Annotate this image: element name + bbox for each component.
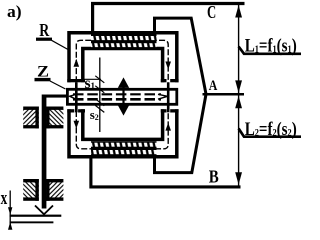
x reference line 1: [10, 215, 62, 217]
dim arrow A-top (down): [235, 80, 242, 93]
rod: [42, 95, 47, 209]
svg-text:C: C: [207, 2, 216, 22]
rod arm: [42, 95, 68, 98]
dim arrow top (up): [235, 5, 242, 18]
underline of L2 with leader to dim line: [239, 129, 301, 137]
rod end arrow: [35, 206, 53, 215]
upper winding hatched band: [91, 35, 157, 48]
s dimension vertical line: [99, 58, 101, 133]
leader from R to core: [52, 40, 69, 49]
s tick at gap1 bottom: [95, 86, 104, 93]
x dimension vertical line: [9, 191, 11, 230]
svg-text:R: R: [39, 20, 50, 40]
lower core right limb top edge (with flux gap): [161, 109, 167, 112]
support block upper-right: [46, 110, 63, 126]
armature taper right: [158, 94, 168, 99]
lower flux arrow right (up): [165, 123, 171, 131]
underline of R: [36, 38, 52, 41]
support block lower-left: [23, 182, 39, 198]
armature dashed line upper: [73, 93, 161, 95]
lower flux arrow left (down): [74, 121, 80, 129]
wire from node A to lower coil right end: [155, 95, 206, 173]
leader from Z to armature: [50, 81, 66, 89]
upper flux arrow right (down): [165, 62, 171, 70]
lower core outline (U): [69, 109, 177, 157]
dim arrow A-bottom (up): [235, 96, 242, 109]
upper flux path: [76, 40, 168, 82]
lower winding hatched band: [91, 141, 157, 155]
armature outline: [67, 89, 176, 104]
dim arrow bottom (down): [235, 172, 242, 185]
support block lower-right: [46, 182, 63, 198]
x dim arrow upper (down): [8, 207, 12, 215]
x reference line 2: [10, 221, 54, 223]
svg-text:a): a): [7, 2, 22, 21]
flux gap stub right: [167, 82, 170, 112]
underline of Z: [35, 78, 51, 81]
upper core inner window edge: [83, 49, 163, 83]
svg-text:B: B: [209, 167, 219, 187]
svg-text:A: A: [209, 78, 218, 94]
lower core inner window edge: [83, 109, 163, 139]
s tick at gap2 top: [95, 99, 104, 106]
upper core right limb bottom edge (with flux gap): [161, 79, 167, 82]
x dim arrow lower (up): [8, 222, 12, 230]
upper flux arrow left (up): [74, 59, 80, 67]
s1 extension line: [84, 78, 101, 80]
armature taper left: [70, 94, 76, 99]
s tick at gap1 top: [95, 76, 104, 83]
upper core outline (inverted U): [69, 33, 177, 83]
lower core left limb top edge (with flux gap): [67, 109, 74, 112]
armature dashed line lower: [73, 98, 161, 101]
motion double arrow: [122, 86, 124, 107]
wire from upper coil right end to node A: [155, 18, 206, 93]
right dimension vertical line: [238, 4, 240, 186]
svg-text:x: x: [1, 188, 8, 209]
lower flux path: [76, 111, 168, 149]
s tick at gap2 bottom: [95, 105, 104, 112]
wire B: from lower coil left end down and right: [91, 155, 241, 187]
wire C: vertical from coil to top, horizontal to right: [93, 4, 245, 35]
support block upper-left: [23, 110, 39, 126]
underline of L1 with leader to dim line: [239, 47, 301, 54]
upper core left limb bottom edge: [67, 79, 85, 82]
node A tick line: [203, 93, 245, 96]
flux gap stub left: [75, 82, 78, 112]
